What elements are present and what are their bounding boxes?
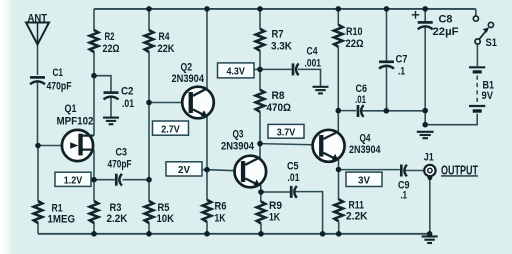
node R10 top rail	[336, 6, 342, 12]
node box 3.7V	[268, 124, 304, 138]
svg-text:10K: 10K	[157, 213, 175, 225]
svg-text:R1: R1	[52, 202, 63, 214]
resistor R4 22K	[145, 30, 175, 55]
node R9 bottom rail	[258, 231, 264, 237]
svg-text:MPF102: MPF102	[57, 115, 94, 127]
wire antenna lead down to C1	[37, 44, 39, 75]
wire 4.3V node to C4	[260, 68, 292, 70]
svg-text:R3: R3	[110, 202, 122, 214]
node R5 bottom rail	[146, 231, 152, 237]
wire C4 to ground drop	[298, 69, 321, 86]
wire R4 bottom to C3 node to R5	[148, 52, 150, 202]
node R7 top rail	[257, 6, 263, 12]
transistor Q1 MPF102 JFET	[57, 103, 94, 161]
svg-text:.01: .01	[355, 94, 366, 106]
svg-text:Q3: Q3	[233, 129, 244, 141]
node battery ground	[422, 122, 428, 128]
wire Q3 collector node to Q4 base	[260, 144, 319, 145]
svg-text:R7: R7	[272, 28, 284, 40]
wire R5 bottom to ground rail	[148, 223, 150, 234]
svg-text:Q1: Q1	[65, 103, 77, 115]
svg-text:R5: R5	[158, 202, 170, 214]
node 4.3V R7 R8	[257, 67, 263, 73]
svg-text:.01: .01	[288, 172, 300, 184]
wire C7 bottom to ground bus	[386, 66, 388, 111]
svg-text:R11: R11	[349, 199, 365, 211]
wire 1.2V box stub	[91, 179, 95, 181]
node Q2 collector top rail	[204, 6, 210, 12]
wire R9 bottom to ground rail	[260, 224, 262, 234]
ground under output rail end	[422, 236, 438, 243]
svg-text:.1: .1	[401, 189, 408, 201]
wire C8 from top rail	[424, 9, 426, 22]
capacitor C9 .1	[398, 165, 410, 202]
svg-text:9V: 9V	[482, 90, 494, 102]
capacitor C2 .01	[104, 85, 135, 109]
resistor R7 3.3K	[256, 28, 292, 52]
node Q2 emitter 2V	[204, 167, 210, 173]
svg-text:R6: R6	[215, 200, 227, 212]
node R3 bottom rail	[91, 231, 97, 237]
svg-text:C3: C3	[116, 146, 128, 158]
svg-text:R8: R8	[272, 90, 285, 102]
wire R1 bottom to ground rail	[37, 223, 39, 234]
wire C8 bottom to ground node	[424, 26, 426, 125]
svg-text:3.7V: 3.7V	[277, 127, 296, 138]
wire C5 tap from emitter node	[261, 191, 290, 193]
capacitor C8 22uF electrolytic	[412, 11, 459, 38]
resistor R3 2.2K	[90, 201, 128, 225]
svg-text:2N3904: 2N3904	[349, 144, 381, 156]
node C8 top rail	[422, 6, 428, 12]
resistor R6 1K	[203, 200, 227, 225]
wire R3 bottom to ground rail	[93, 223, 95, 234]
svg-text:C5: C5	[287, 160, 299, 172]
wire top rail corner down to switch S1	[475, 9, 477, 16]
svg-text:1K: 1K	[215, 212, 226, 224]
node J1 bottom rail	[427, 231, 433, 237]
svg-text:2.2K: 2.2K	[346, 211, 368, 223]
wire R10 top rail	[337, 9, 339, 25]
svg-text:Q2: Q2	[181, 61, 193, 73]
svg-text:470pF: 470pF	[108, 158, 132, 170]
wire R6 bottom to ground rail	[206, 222, 208, 234]
node Q4 collector C6	[336, 108, 342, 114]
wire gate node down to R1	[37, 146, 39, 202]
wire Q2 emitter node to Q3 base	[207, 170, 235, 171]
wire bottom ground rail	[38, 233, 430, 235]
svg-text:3.3K: 3.3K	[271, 40, 292, 52]
svg-text:.001: .001	[305, 58, 322, 70]
wire 2V box stub	[202, 169, 207, 171]
wire R2 bottom to Q1 drain stub	[93, 52, 95, 136]
wire output node to C9	[339, 169, 400, 171]
resistor R9 1K	[257, 200, 282, 224]
wire Q4 emitter down to output node	[338, 160, 340, 170]
wire R10 bottom to Q4 collector	[337, 47, 339, 132]
node C7 top rail	[384, 6, 390, 12]
wire 4.3V box stub	[254, 68, 260, 70]
wire top supply rail	[94, 8, 476, 10]
wire source node to C3	[94, 179, 115, 181]
svg-text:22µF: 22µF	[433, 26, 459, 38]
svg-text:R2: R2	[105, 31, 115, 43]
wire collector node down to Q3	[259, 144, 261, 159]
antenna ANT symbol	[26, 12, 49, 44]
ground supply common	[417, 132, 434, 138]
svg-text:22Ω: 22Ω	[103, 43, 120, 55]
wire top rail corner down to R2	[93, 9, 95, 31]
wire R7 top rail	[259, 9, 261, 29]
wire C6 right to C7 node	[363, 110, 387, 112]
svg-text:J1: J1	[424, 152, 434, 164]
transistor Q2 2N3904	[172, 61, 214, 118]
svg-text:C2: C2	[121, 85, 134, 97]
wire C7 from top rail	[386, 9, 388, 61]
node box 1.2V	[55, 172, 91, 186]
svg-text:22Ω: 22Ω	[346, 38, 364, 50]
wire ground bus C7 node to C8 node	[386, 110, 425, 112]
battery B1 9V	[469, 67, 494, 112]
capacitor C5 .01	[287, 160, 300, 198]
node Q4 emitter output	[336, 167, 342, 173]
svg-text:1.2V: 1.2V	[64, 176, 83, 187]
resistor R10 22ohm	[334, 25, 364, 50]
svg-text:C1: C1	[53, 67, 64, 79]
svg-text:4.3V: 4.3V	[226, 67, 245, 78]
wire C2 to ground	[110, 97, 112, 118]
node Q3 emitter C5	[258, 189, 264, 195]
svg-text:OUTPUT: OUTPUT	[441, 162, 478, 177]
wire Q2 emitter column down to R6	[206, 116, 208, 200]
node box 2V	[166, 162, 202, 176]
svg-text:2N3904: 2N3904	[221, 141, 255, 153]
node box 3V	[346, 172, 382, 187]
svg-text:.1: .1	[398, 66, 405, 78]
wire C5 right to ground rail drop	[295, 192, 323, 234]
capacitor C4 .001	[293, 45, 321, 75]
transistor Q3 2N3904	[221, 129, 266, 188]
svg-text:22K: 22K	[158, 43, 175, 55]
capacitor C1 470pF	[30, 67, 72, 93]
node Q1 gate	[35, 143, 41, 149]
svg-text:C7: C7	[396, 54, 408, 66]
svg-text:470pF: 470pF	[47, 80, 72, 92]
wire R11 bottom to ground rail	[338, 222, 340, 234]
wire Q2 base lead	[149, 102, 188, 104]
wire Q1 source stub	[82, 149, 94, 151]
wire R7 bottom to 4.3V node	[259, 51, 261, 91]
svg-text:2V: 2V	[178, 165, 190, 176]
node R11 bottom rail	[336, 231, 342, 237]
node C7 ground bus	[384, 108, 390, 114]
svg-text:R4: R4	[159, 31, 171, 43]
wire Q1 drain stub	[82, 135, 94, 137]
svg-text:Q4: Q4	[360, 132, 372, 144]
node box 4.3V	[218, 63, 255, 78]
transistor Q4 2N3904	[313, 130, 382, 162]
svg-text:R9: R9	[269, 200, 282, 212]
resistor R1 1MEG	[34, 201, 75, 226]
wire C9 to jack J1	[405, 170, 425, 172]
node R4 top rail	[146, 6, 152, 12]
wire C6 tap from collector node	[338, 110, 356, 112]
wire Q1 gate lead	[38, 145, 70, 147]
resistor R2 22ohm	[90, 30, 120, 55]
node R6 bottom rail	[204, 231, 210, 237]
svg-text:ANT: ANT	[28, 12, 48, 24]
node Q2 base	[146, 100, 152, 106]
resistor R8 470ohm	[256, 90, 291, 114]
wire ground node to battery minus	[425, 114, 477, 125]
wire J1 down to ground rail	[429, 176, 431, 234]
svg-text:470Ω: 470Ω	[267, 102, 292, 114]
svg-text:2N3904: 2N3904	[172, 73, 205, 85]
wire Q2 collector to top rail	[206, 9, 208, 89]
switch S1	[473, 16, 497, 49]
svg-text:C8: C8	[439, 14, 453, 26]
svg-text:R10: R10	[346, 26, 363, 38]
svg-text:1MEG: 1MEG	[48, 214, 76, 226]
wire R4 top rail to base column	[148, 9, 150, 31]
svg-text:3V: 3V	[358, 176, 370, 187]
wire Q1 source column down through 1.2V node to R3	[93, 150, 95, 201]
node C3 junction	[146, 177, 152, 183]
svg-text:.01: .01	[122, 98, 134, 110]
wire Q3 emitter column down through C5 tap to R9	[260, 185, 262, 202]
node Q3 collector	[257, 141, 263, 147]
capacitor C6 .01	[355, 83, 367, 117]
svg-text:S1: S1	[486, 37, 498, 49]
wire R8 bottom to Q3 collector node	[259, 112, 261, 144]
svg-text:2.2K: 2.2K	[107, 213, 128, 225]
wire battery cell link dashed	[476, 76, 478, 104]
ground under C4	[313, 87, 329, 94]
resistor R11 2.2K	[334, 199, 367, 222]
wire C1 to Q1 gate node	[37, 81, 39, 146]
node C5 bottom rail	[320, 231, 326, 237]
jack J1 OUTPUT	[424, 152, 478, 181]
ground under C2	[103, 118, 119, 125]
wire C2 tap from drain column	[94, 76, 111, 92]
wire output node down to R11	[338, 170, 340, 201]
wire S1 lower contact down to battery plus	[476, 44, 478, 66]
svg-text:1K: 1K	[269, 211, 280, 223]
node C8 ground bus	[422, 108, 428, 114]
capacitor C7 .1	[379, 54, 408, 78]
node box 2.7V	[153, 121, 189, 135]
svg-text:2.7V: 2.7V	[161, 124, 180, 135]
node 1.2V source	[91, 177, 97, 183]
svg-text:C4: C4	[307, 45, 319, 57]
capacitor C3 470pF	[108, 146, 132, 185]
node dots	[35, 6, 432, 237]
resistor R5 10K	[145, 201, 174, 225]
wire C3 to Q2 base node	[123, 179, 150, 181]
node C2 tap	[91, 73, 97, 79]
